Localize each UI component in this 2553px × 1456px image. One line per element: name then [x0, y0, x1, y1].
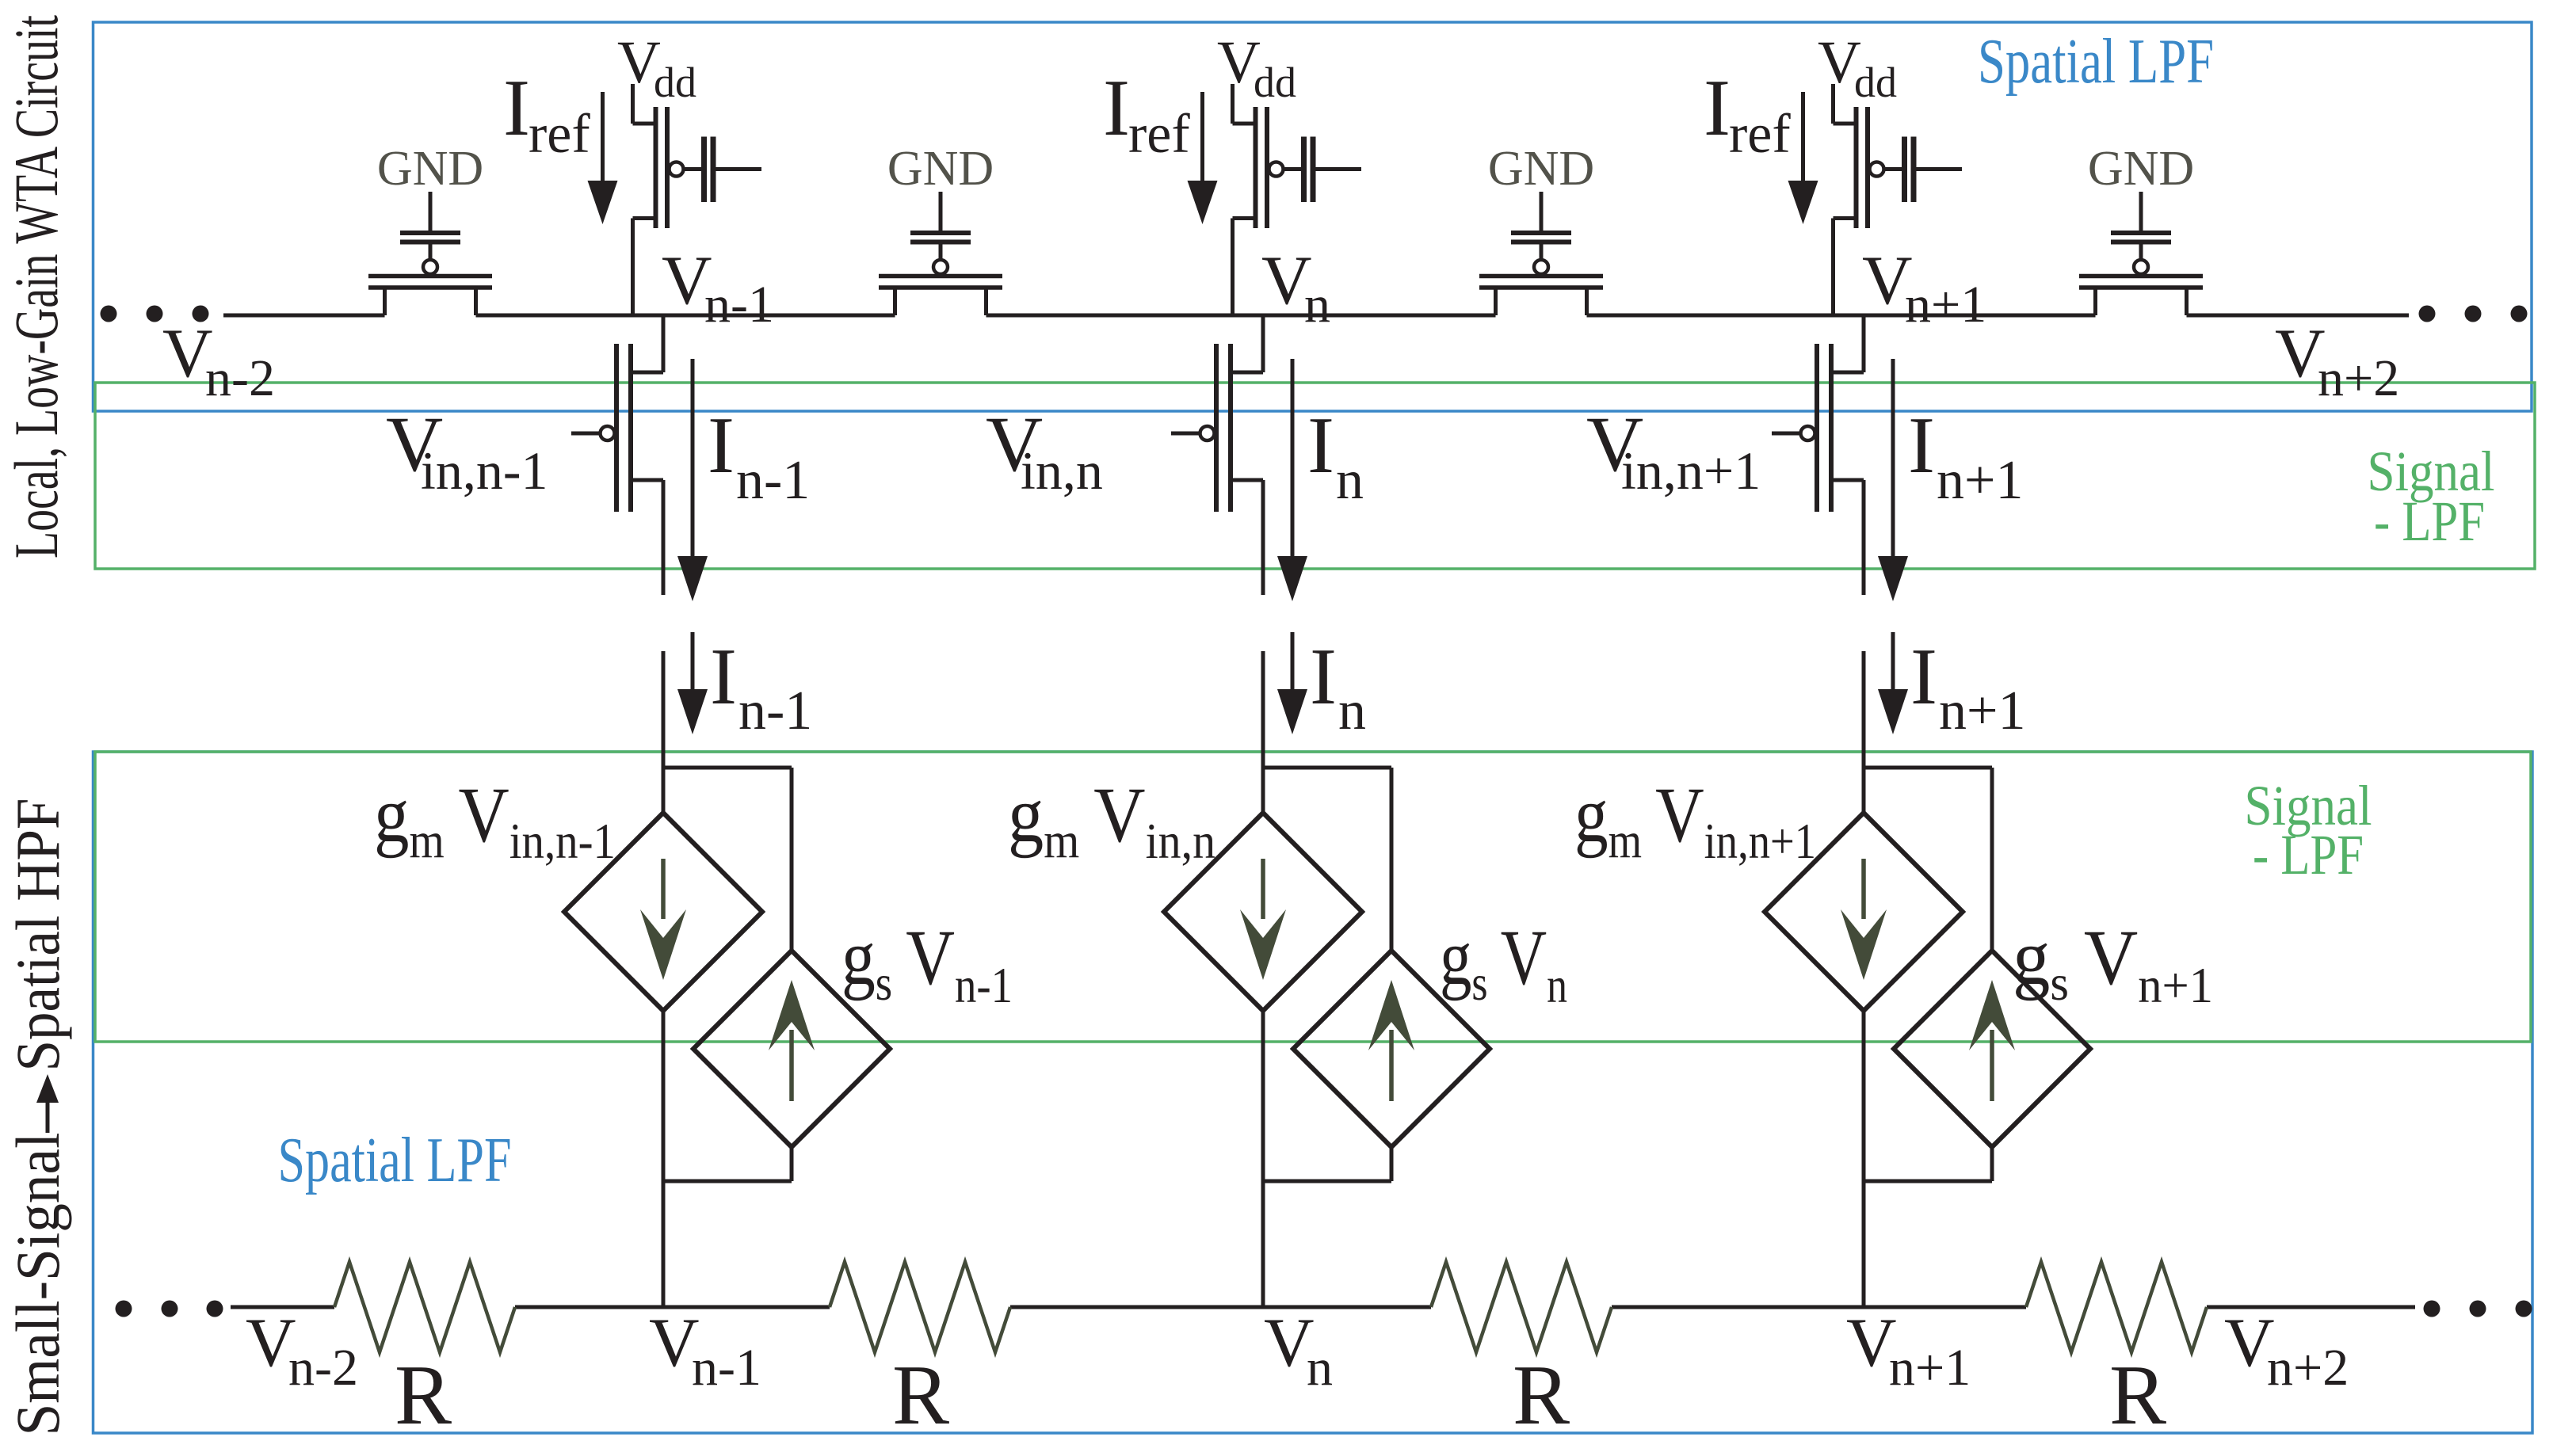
svg-text:n+1: n+1: [1937, 450, 2023, 511]
svg-text:n: n: [1336, 450, 1364, 511]
svg-text:n-2: n-2: [288, 1339, 358, 1397]
svg-text:in,n+1: in,n+1: [1621, 440, 1761, 501]
svg-text:n-1: n-1: [738, 680, 812, 741]
svg-text:I: I: [1103, 63, 1130, 153]
svg-text:Small-Signal: Small-Signal: [3, 1133, 72, 1436]
svg-text:GND: GND: [1488, 142, 1594, 196]
svg-text:I: I: [1704, 63, 1731, 153]
svg-text:I: I: [1908, 401, 1935, 490]
svg-text:Spatial LPF: Spatial LPF: [278, 1126, 512, 1195]
svg-text:n: n: [1304, 276, 1330, 334]
svg-text:in,n-1: in,n-1: [421, 440, 548, 501]
svg-text:ref: ref: [1729, 104, 1791, 165]
svg-text:n-1: n-1: [704, 276, 774, 334]
svg-text:I: I: [1910, 632, 1937, 722]
svg-text:I: I: [1310, 632, 1337, 722]
svg-text:Spatial LPF: Spatial LPF: [1978, 27, 2214, 97]
svg-text:n: n: [1307, 1339, 1333, 1397]
svg-text:R: R: [2109, 1348, 2166, 1443]
svg-text:R: R: [892, 1348, 949, 1443]
svg-text:GND: GND: [887, 142, 994, 196]
svg-text:- LPF: - LPF: [2374, 490, 2485, 553]
svg-text:n-1: n-1: [736, 450, 810, 511]
svg-text:GND: GND: [377, 142, 483, 196]
svg-text:I: I: [1307, 401, 1334, 490]
svg-text:Spatial HPF: Spatial HPF: [3, 799, 72, 1072]
svg-text:R: R: [1513, 1348, 1570, 1443]
svg-text:R: R: [395, 1348, 452, 1443]
svg-text:dd: dd: [1854, 59, 1897, 106]
svg-text:ref: ref: [1128, 104, 1190, 165]
svg-text:n+1: n+1: [1939, 680, 2025, 741]
svg-text:I: I: [710, 632, 737, 722]
svg-text:n-2: n-2: [205, 349, 275, 407]
svg-text:n-1: n-1: [692, 1339, 761, 1397]
svg-text:n: n: [1338, 680, 1366, 741]
svg-text:dd: dd: [1254, 59, 1296, 106]
svg-text:- LPF: - LPF: [2253, 823, 2364, 886]
svg-text:I: I: [708, 401, 735, 490]
svg-text:n+2: n+2: [2318, 349, 2399, 407]
svg-text:dd: dd: [654, 59, 696, 106]
svg-text:n+1: n+1: [1889, 1339, 1971, 1397]
svg-text:ref: ref: [529, 104, 590, 165]
svg-text:n+1: n+1: [1905, 276, 1986, 334]
svg-text:Local, Low-Gain WTA Circuit: Local, Low-Gain WTA Circuit: [2, 15, 71, 558]
svg-text:I: I: [503, 63, 530, 153]
svg-text:in,n: in,n: [1021, 440, 1103, 501]
svg-text:n+2: n+2: [2267, 1339, 2349, 1397]
svg-text:GND: GND: [2088, 142, 2194, 196]
